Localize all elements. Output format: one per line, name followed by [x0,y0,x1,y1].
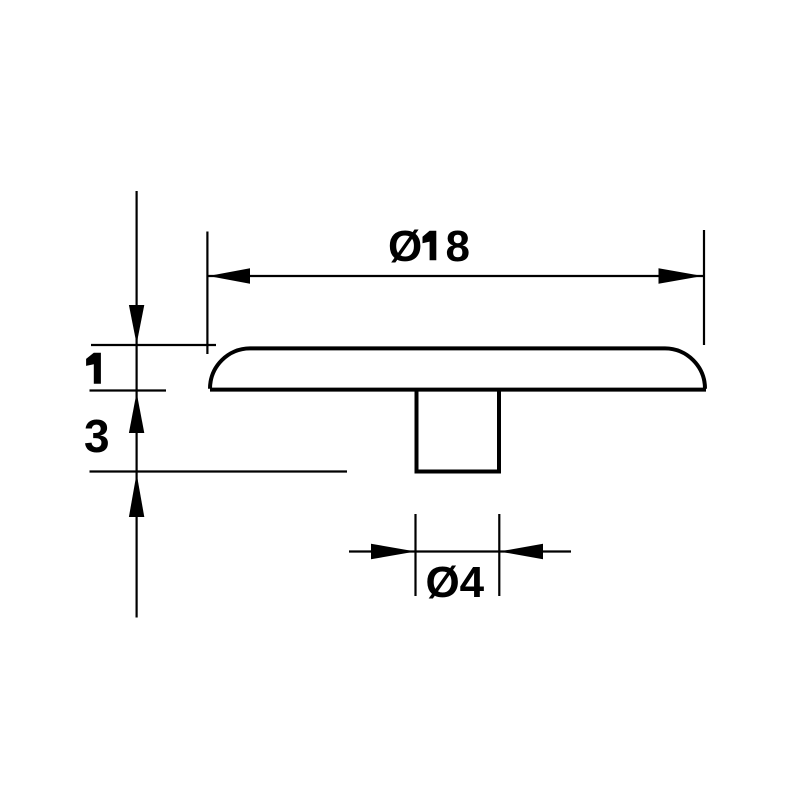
Ø4 dimension line [349,550,571,552]
svg-text:Ø4: Ø4 [425,558,484,607]
Ø18 left extension line [206,232,208,355]
long line at stem bottom level [90,470,348,472]
Ø4 left extension line [414,514,416,596]
Ø4 right arrowhead [499,544,543,560]
Ø18 right extension line [703,230,705,345]
left vertical dimension line [136,191,138,618]
Ø18 dimension line [207,275,704,277]
Ø18 left arrowhead [209,268,251,284]
tick line at cap bottom level [90,389,167,391]
svg-text:8: 8 [446,222,470,271]
cap profile (head of cover cap) [210,348,706,389]
label 1 [86,353,101,384]
tick line at cap top level [91,344,216,346]
up arrow tip at y=392.5 [129,393,144,434]
down arrow tip at y=344 [129,305,144,344]
up arrow tip at y=473.5 [129,474,144,518]
svg-text:3: 3 [84,410,110,462]
stem of cap [417,390,500,472]
Ø4 left arrowhead [371,544,416,560]
svg-text:Ø: Ø [388,222,422,271]
Ø18 right arrowhead [659,268,703,284]
Ø4 right extension line [498,514,500,596]
